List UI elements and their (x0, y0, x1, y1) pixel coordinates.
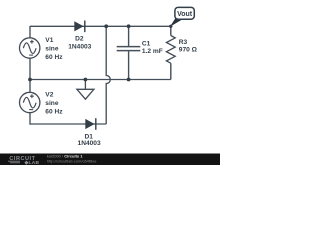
wire right vertical with crossover hop (106, 26, 110, 124)
ground (77, 80, 94, 100)
label D1 1N4003 (78, 133, 101, 147)
voltage source V1 (20, 38, 40, 58)
svg-text:sine: sine (45, 46, 59, 53)
svg-text:970 Ω: 970 Ω (179, 46, 198, 53)
wire top rail (30, 25, 171, 27)
junction dot top rail / right vertical (104, 24, 108, 28)
svg-text:sine: sine (45, 100, 59, 107)
junction dot capacitor bottom / middle rail (127, 78, 131, 82)
wire between V1 and V2 (29, 58, 31, 92)
diode D2 (74, 21, 85, 33)
label D2 1N4003 (68, 36, 91, 51)
junction dot output node (169, 25, 172, 28)
voltage source V2 (20, 92, 40, 112)
wire middle rail (30, 79, 171, 81)
node Vout flag pointer (170, 19, 183, 27)
label V1 sine 60 Hz (45, 37, 63, 61)
svg-text:V2: V2 (45, 92, 53, 99)
wire left vertical top (V1 to top rail) (29, 26, 31, 38)
label R3 970 ohm (179, 39, 198, 54)
svg-text:C1: C1 (142, 40, 151, 47)
resistor R3 (166, 26, 175, 79)
junction dot middle rail / sources midpoint (28, 78, 32, 82)
svg-text:Vout: Vout (177, 11, 193, 18)
node Vout label box (175, 7, 194, 19)
label V2 sine 60 Hz (45, 92, 63, 116)
svg-text:D2: D2 (75, 36, 84, 43)
diode D1 (85, 118, 96, 130)
svg-text:◆LAB: ◆LAB (24, 160, 40, 165)
svg-text:V1: V1 (45, 37, 53, 44)
svg-text:1N4003: 1N4003 (68, 44, 91, 51)
junction dot capacitor top / top rail (127, 24, 131, 28)
footer CircuitLab logo (8, 156, 39, 166)
label C1 1.2 mF (142, 40, 163, 55)
svg-text:http://circuitlab.com/c64f8xe: http://circuitlab.com/c64f8xe (47, 159, 97, 164)
svg-text:60 Hz: 60 Hz (45, 109, 63, 116)
svg-text:1N4003: 1N4003 (78, 140, 101, 147)
svg-text:R3: R3 (179, 39, 188, 46)
svg-text:60 Hz: 60 Hz (45, 54, 63, 61)
capacitor C1 (117, 26, 141, 79)
wire bottom rail (30, 123, 106, 125)
footer bar (0, 154, 220, 166)
footer credit text (47, 154, 97, 164)
svg-text:1.2 mF: 1.2 mF (142, 48, 163, 55)
junction dot ground / middle rail (84, 78, 88, 82)
wire left vertical bottom (V2 to bottom rail) (29, 113, 31, 125)
